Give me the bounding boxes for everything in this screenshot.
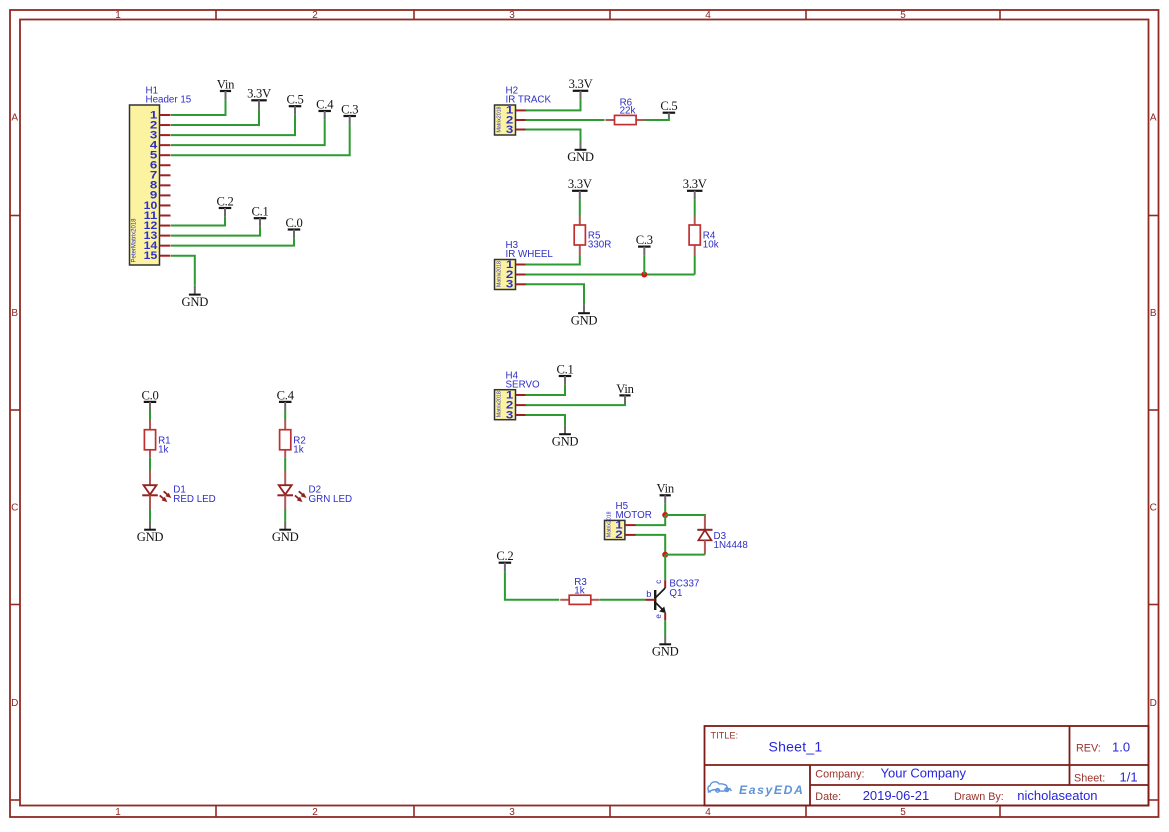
pin 3 of H2: [506, 124, 527, 136]
pin 6 of H1: [150, 160, 171, 172]
svg-text:Matrix2018: Matrix2018: [497, 261, 503, 287]
wire R1 to D1: [149, 458, 151, 471]
svg-text:A: A: [11, 113, 18, 124]
svg-text:Q1: Q1: [669, 588, 682, 599]
svg-text:D: D: [11, 698, 18, 709]
svg-text:10k: 10k: [703, 240, 719, 251]
net flag C.5: [660, 99, 677, 117]
connector H5 MOTOR: [605, 501, 652, 540]
junction C.3 tap: [641, 272, 647, 278]
pin 4 of H1: [150, 139, 171, 151]
wire C.3 drop: [643, 255, 645, 274]
svg-text:GND: GND: [567, 150, 594, 164]
pin 2 of H4: [506, 399, 527, 411]
pin 14 of H1: [144, 240, 171, 252]
svg-text:Matrix2018: Matrix2018: [497, 107, 503, 133]
svg-text:3: 3: [509, 807, 515, 818]
svg-text:C.1: C.1: [251, 205, 268, 219]
svg-text:2: 2: [312, 10, 318, 21]
wire H4 pin 1 to C.1: [526, 385, 566, 395]
wire R5 to 3.3V: [579, 199, 581, 216]
svg-text:Matrix2018: Matrix2018: [607, 511, 613, 537]
pin 13 of H1: [144, 230, 171, 242]
wire H4 pin 3 to GND: [526, 415, 566, 425]
svg-text:b: b: [646, 588, 651, 599]
resistor R1: [144, 419, 155, 458]
ground H4: [552, 425, 579, 448]
svg-text:3.3V: 3.3V: [569, 77, 593, 91]
wire H1 pin 13 to C.1: [171, 227, 260, 236]
resistor R3: [560, 595, 600, 604]
svg-text:GND: GND: [137, 530, 164, 544]
pin 12 of H1: [144, 220, 171, 232]
pin 8 of H1: [150, 180, 171, 192]
svg-text:1k: 1k: [158, 444, 168, 455]
svg-text:Vin: Vin: [616, 382, 634, 396]
svg-text:e: e: [654, 614, 663, 619]
pin 9 of H1: [150, 190, 171, 202]
wire H3 pin 2 bus: [526, 274, 695, 276]
value label R5 330R: [588, 231, 611, 251]
svg-text:1k: 1k: [293, 444, 303, 455]
svg-text:330R: 330R: [588, 240, 611, 251]
svg-text:4: 4: [705, 10, 711, 21]
svg-text:Vin: Vin: [657, 482, 675, 496]
svg-text:Sheet:: Sheet:: [1074, 772, 1105, 784]
pin 1 of H3: [506, 259, 527, 271]
pin 5 of H1: [150, 150, 171, 162]
wire Q1 emitter to GND: [664, 620, 666, 635]
svg-text:Drawn By:: Drawn By:: [954, 791, 1004, 803]
svg-text:C.0: C.0: [141, 388, 158, 402]
wire H2 pin 3 to GND: [526, 130, 581, 142]
svg-text:Date:: Date:: [815, 791, 841, 803]
pin 10 of H1: [144, 200, 171, 212]
wire H1 pin 3 to C.5: [171, 115, 295, 135]
junction motor+ node: [662, 512, 668, 518]
net flag C.3: [636, 233, 653, 255]
wire R6 to C.5: [645, 118, 669, 121]
svg-text:C.5: C.5: [286, 93, 303, 107]
wire node1 to D3 cathode: [665, 515, 705, 516]
net flag C.0: [285, 216, 302, 238]
svg-text:B: B: [1150, 308, 1157, 319]
wire node2 to D3 anode: [665, 554, 705, 556]
net flag 3.3V: [568, 177, 592, 199]
resistor R6: [606, 115, 646, 124]
wire H1 pin 5 to C.3: [171, 125, 350, 156]
net flag C.4: [316, 97, 334, 119]
svg-text:D: D: [1150, 698, 1157, 709]
svg-text:TITLE:: TITLE:: [711, 731, 739, 741]
net flag C.1: [251, 205, 268, 227]
connector H1 Header 15: [130, 86, 192, 265]
wire H1 pin 15 to GND: [171, 256, 195, 286]
svg-text:3: 3: [506, 279, 513, 291]
svg-text:C.5: C.5: [660, 99, 677, 113]
svg-text:Matrix2018: Matrix2018: [497, 391, 503, 417]
svg-text:1/1: 1/1: [1120, 769, 1138, 784]
pin 3 of H3: [506, 279, 527, 291]
svg-text:C.3: C.3: [341, 102, 358, 116]
svg-text:EasyEDA: EasyEDA: [739, 783, 804, 797]
pin 2 of H1: [150, 119, 171, 131]
wire H2 pin 1 to 3.3V: [526, 99, 581, 110]
pin 3 of H1: [150, 129, 171, 141]
svg-text:5: 5: [900, 807, 906, 818]
net flag C.5: [286, 93, 303, 115]
net flag 3.3V: [247, 87, 271, 109]
wire H2 pin 2 to R6: [526, 119, 605, 121]
svg-text:3: 3: [509, 10, 515, 21]
svg-text:C.1: C.1: [556, 362, 573, 376]
wire R4 to H3 pin 2: [694, 255, 696, 275]
connector H4 SERVO: [495, 370, 541, 419]
svg-text:C.2: C.2: [216, 194, 233, 208]
resistor R4: [689, 216, 700, 255]
svg-text:C.3: C.3: [636, 233, 653, 247]
net flag C.2: [496, 549, 513, 571]
ground D2: [272, 521, 299, 544]
ground D1: [137, 521, 164, 544]
pin 7 of H1: [150, 170, 171, 182]
svg-text:nicholaseaton: nicholaseaton: [1017, 788, 1097, 803]
wire R3 to Q1 base: [600, 599, 645, 601]
pin 2 of H3: [506, 269, 527, 281]
ground H3: [571, 304, 598, 327]
ground H1: [182, 286, 209, 309]
svg-text:1N4448: 1N4448: [714, 540, 749, 551]
svg-text:REV:: REV:: [1076, 743, 1101, 755]
svg-text:1: 1: [115, 807, 121, 818]
pin 2 of H5: [615, 529, 636, 541]
svg-text:3.3V: 3.3V: [247, 87, 271, 101]
pin labels c b e of Q1: [646, 580, 663, 619]
svg-text:C: C: [11, 503, 18, 514]
pin 1 of H4: [506, 389, 527, 401]
svg-text:C.4: C.4: [277, 388, 295, 402]
pin 2 of H2: [506, 114, 527, 126]
svg-text:RED LED: RED LED: [173, 494, 215, 505]
ground Q1: [652, 636, 679, 659]
wire D1 to GND: [149, 510, 151, 521]
svg-text:Sheet_1: Sheet_1: [769, 739, 823, 755]
wire H1 pin 12 to C.2: [171, 217, 225, 226]
net flag C.4: [277, 388, 295, 410]
svg-text:5: 5: [900, 10, 906, 21]
pin 15 of H1: [144, 250, 171, 262]
junction motor- node: [662, 552, 668, 558]
svg-text:Header 15: Header 15: [146, 95, 192, 106]
wire H3 pin 1 to R5: [526, 255, 580, 265]
svg-text:22k: 22k: [620, 106, 636, 117]
net flag C.2: [216, 194, 233, 216]
svg-text:GND: GND: [652, 645, 679, 659]
value label D2 GRN LED: [309, 485, 353, 505]
net flag C.0: [141, 388, 158, 410]
net flag Vin: [616, 382, 634, 404]
svg-text:Company:: Company:: [815, 768, 864, 780]
wire H1 pin 14 to C.0: [171, 238, 294, 246]
wire node2 to Q1 collector: [664, 555, 666, 581]
svg-text:GND: GND: [272, 530, 299, 544]
transistor Q1: [645, 580, 666, 620]
svg-text:C.4: C.4: [316, 97, 334, 111]
value label Q1 BC337: [669, 579, 699, 599]
value label R1 1k: [158, 435, 171, 455]
svg-text:3.3V: 3.3V: [683, 177, 707, 191]
wire H5 pin 2 to node2: [635, 535, 665, 555]
wire R4 to 3.3V: [694, 199, 696, 216]
svg-text:C: C: [1150, 503, 1157, 514]
wire C.0 to R1: [149, 411, 151, 420]
resistor R5: [574, 216, 585, 255]
wire C.2 to R3: [505, 571, 559, 600]
pin 11 of H1: [144, 210, 171, 222]
wire H3 pin 3 to GND: [526, 284, 585, 304]
net flag C.3: [341, 102, 358, 124]
svg-text:4: 4: [705, 807, 711, 818]
svg-text:Your Company: Your Company: [881, 765, 967, 780]
pin 1 of H2: [506, 105, 527, 117]
LED D2: [277, 471, 306, 510]
wire Vin to node1: [664, 504, 666, 515]
svg-text:C.0: C.0: [285, 216, 302, 230]
connector H2 IR TRACK: [495, 86, 552, 135]
wire H1 pin 4 to C.4: [171, 120, 325, 146]
net flag Vin: [217, 77, 235, 99]
svg-text:1.0: 1.0: [1112, 740, 1130, 755]
svg-text:2: 2: [615, 529, 622, 541]
svg-text:3: 3: [506, 124, 513, 136]
svg-text:1k: 1k: [574, 585, 584, 596]
value label R6 22k: [620, 97, 636, 116]
net flag Vin: [657, 482, 675, 504]
ground H2: [567, 141, 594, 164]
svg-text:15: 15: [144, 250, 158, 262]
value label D3 1N4448: [714, 531, 749, 551]
value label R4 10k: [703, 231, 719, 251]
connector H3 IR WHEEL: [495, 240, 554, 289]
wire H1 pin 1 to Vin: [171, 100, 226, 115]
wire D2 to GND: [284, 510, 286, 521]
svg-text:2019-06-21: 2019-06-21: [863, 788, 930, 803]
resistor R2: [280, 419, 291, 458]
value label R3 1k: [574, 577, 587, 596]
svg-text:C.2: C.2: [496, 549, 513, 563]
net flag 3.3V: [683, 177, 707, 199]
svg-text:2: 2: [312, 807, 318, 818]
net flag 3.3V: [569, 77, 593, 99]
wire R2 to D2: [284, 458, 286, 471]
svg-text:GRN LED: GRN LED: [309, 494, 353, 505]
value label D1 RED LED: [173, 485, 215, 505]
value label R2 1k: [293, 435, 306, 455]
wire node1 to H5 pin 1: [635, 515, 665, 525]
svg-text:1: 1: [115, 10, 121, 21]
pin 3 of H4: [506, 409, 527, 421]
svg-text:3.3V: 3.3V: [568, 177, 592, 191]
wire H1 pin 2 to 3.3V: [171, 109, 259, 125]
svg-text:3: 3: [506, 409, 513, 421]
wire H4 pin 2 to Vin: [526, 404, 626, 405]
svg-text:B: B: [11, 308, 18, 319]
diode D3: [697, 515, 712, 555]
svg-text:GND: GND: [571, 313, 598, 327]
pin 1 of H1: [150, 109, 171, 121]
svg-text:GND: GND: [552, 434, 579, 448]
pin 1 of H5: [615, 519, 636, 531]
net flag C.1: [556, 362, 573, 384]
svg-text:c: c: [654, 580, 663, 584]
svg-text:A: A: [1150, 113, 1157, 124]
svg-text:Vin: Vin: [217, 77, 235, 91]
wire C.4 to R2: [284, 411, 286, 420]
LED D1: [142, 471, 171, 510]
svg-text:GND: GND: [182, 295, 209, 309]
svg-text:PeterMatrix2018: PeterMatrix2018: [132, 218, 138, 263]
